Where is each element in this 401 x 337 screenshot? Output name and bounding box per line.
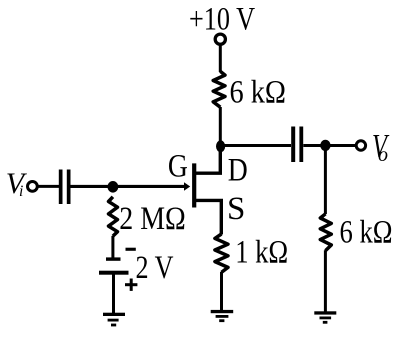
svg-text:6 kΩ: 6 kΩ — [340, 215, 393, 251]
svg-text:G: G — [168, 149, 188, 185]
svg-text:D: D — [228, 153, 248, 189]
svg-text:+10 V: +10 V — [189, 2, 255, 38]
svg-text:2 V: 2 V — [136, 250, 174, 286]
svg-text:o: o — [378, 144, 388, 166]
svg-text:6 kΩ: 6 kΩ — [230, 74, 287, 110]
svg-text:2 MΩ: 2 MΩ — [119, 201, 186, 237]
svg-text:1 kΩ: 1 kΩ — [235, 235, 288, 271]
svg-text:S: S — [227, 191, 245, 227]
svg-text:i: i — [19, 183, 23, 200]
